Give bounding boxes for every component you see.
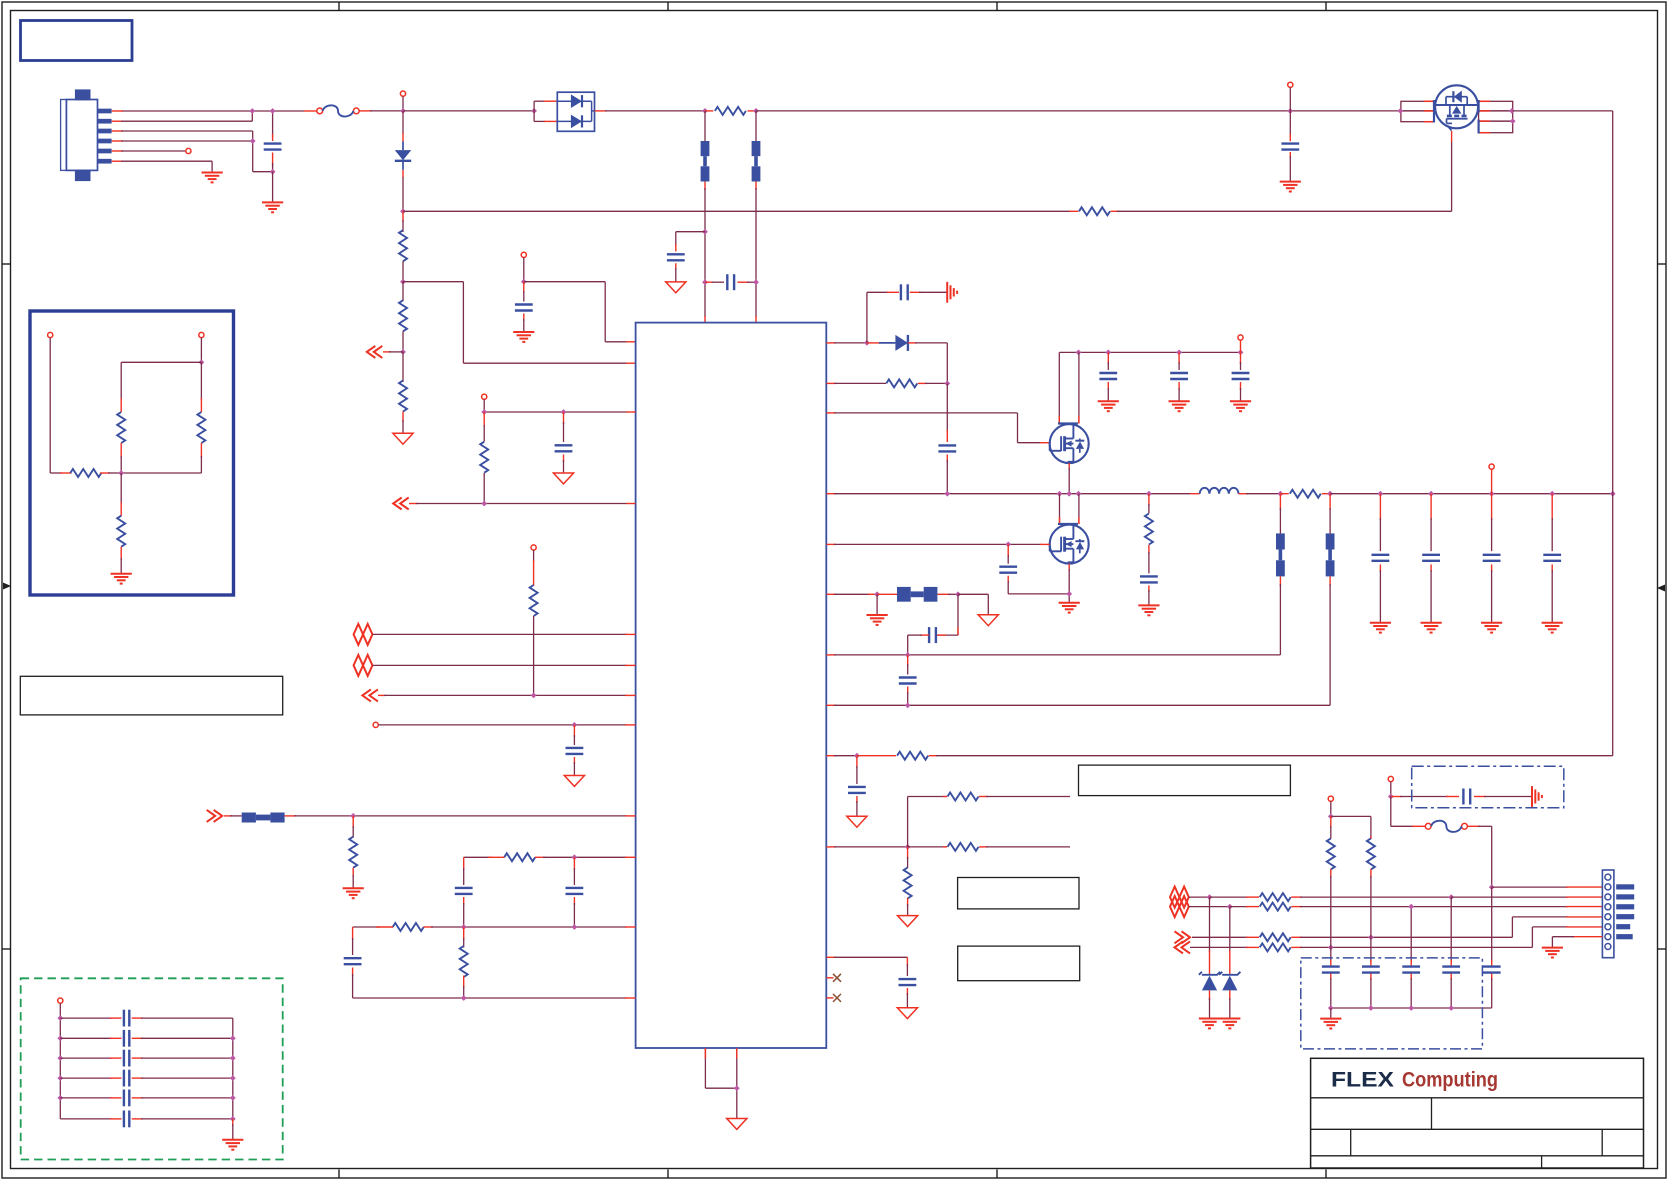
zener diode Z1 [1199,972,1220,991]
wire R11 to row [463,976,465,999]
note box 1 [1079,765,1291,796]
wire C8 leads [463,857,465,927]
wire R18 to C14 to ground [1148,545,1150,605]
capacitor C13 [999,567,1017,573]
pin P10 [48,332,53,337]
wire VIN stub [402,96,404,111]
connector J2 [1602,870,1634,958]
power ground [898,916,918,927]
ground [262,202,283,212]
wire bead B2 to IC top pin [755,182,757,323]
IC U1 [636,323,827,1048]
wire node down to fuse F2 [1391,797,1426,827]
cap bank group box [1301,958,1483,1049]
junction [230,1095,236,1101]
wire R6 to row FB [483,473,485,504]
power ground [666,282,686,293]
wire C5 leads [523,282,525,332]
Q1 right pad network [1479,101,1513,132]
wire L1 to R17 node [1239,493,1281,495]
junction [1328,945,1334,951]
capacitor C15 [929,627,936,643]
pin P9 test point [1388,776,1393,781]
wire R4 to node2 [402,331,404,352]
junction [531,693,537,699]
wire IC row to node [826,654,907,656]
pin VCC test point [1238,335,1243,340]
ferrite bead B6 [1326,533,1335,576]
svg-text:FLEX: FLEX [1331,1068,1395,1092]
junction [230,1055,236,1061]
junction [905,844,911,850]
resistor R2 [1079,207,1110,215]
junction [531,108,537,114]
wire vcc cap leads [1107,352,1109,401]
wire IC row to node3 [826,846,907,848]
wire R1 left stub [705,110,713,112]
wire row3 node to C25 [1370,937,1372,962]
ground [1199,1019,1220,1029]
capacitor C1 [264,144,282,150]
wire switch rail left [826,493,1190,495]
ground [202,173,223,183]
junction [1238,350,1244,356]
junction [734,1085,740,1091]
junction [1408,904,1414,910]
ground [1169,401,1190,411]
wire R12 to node [918,382,948,384]
junction [1448,1005,1454,1011]
wire R7 to row [533,616,535,695]
resistor R1 [715,107,746,115]
ground [1542,948,1563,958]
capacitor C11 [901,284,908,300]
wire pin stub [1289,87,1291,111]
wire pin2 node to C23 [1491,887,1493,962]
wire output cap leads [1491,494,1493,623]
junction [1428,491,1434,497]
junction [461,924,467,930]
wire C13 branch [1008,544,1069,594]
ferrite bead B2 [752,141,761,182]
wire R15 left stub [943,796,947,798]
capacitor C12 [938,445,956,451]
wire corner to R10 [353,926,380,928]
wire D2 cathode to node [908,343,947,384]
junction [270,169,276,175]
port arrow out [207,810,223,822]
wire R24 to row3 [1370,869,1372,937]
wire row INT to IC [378,694,636,696]
wire rail2 right to Q1 drain [1111,131,1452,211]
transistor Q2 [1050,424,1089,464]
wire P2 stub [523,258,525,282]
wire bridge input stubs [534,101,557,121]
wire IC to R12 [826,382,886,384]
junction [250,138,256,144]
wire bank cap leads [1330,960,1332,1008]
port diamond [354,624,373,645]
port arrow out [1175,931,1191,943]
port arrow in [1175,941,1191,953]
capacitor [1483,967,1501,973]
wire row VBUS to IC [294,815,636,817]
power ground [847,816,867,827]
resistor R4 [399,300,407,331]
wire cap row right [132,1077,233,1079]
junction [1327,491,1333,497]
wire cap row left [60,1077,121,1079]
wire output cap leads [1379,494,1381,623]
wire left bus [59,1003,61,1119]
snubber group box [1412,766,1564,808]
wire bead top stub [755,111,757,141]
junction [1489,884,1495,890]
capacitor [1483,555,1501,561]
wire VCC pin stub [1240,340,1242,352]
junction [57,1015,63,1021]
junction [572,854,578,860]
wire R17 right stub [1322,493,1330,495]
wire R13 to right bus [929,494,1613,756]
junction [1368,934,1374,940]
wire R21 to connector pin5 [1291,917,1602,937]
junction [944,491,950,497]
no-connect pin [826,974,841,982]
wire Q2 drain stub b [1078,352,1080,423]
resistor R17 [1290,490,1321,498]
note box 2 [958,878,1079,909]
junction [572,722,578,728]
capacitor C2 [1281,144,1299,150]
wire rail2 left of R2 [403,210,1079,212]
fuse F1 [317,105,359,116]
resistor R27 [70,469,101,477]
wire pin4 node to C21 [1410,907,1412,962]
wire output cap leads [1430,494,1432,623]
wire cap row right [132,1017,233,1019]
wire cap bank bus [1331,1007,1492,1009]
capacitor C16 [899,678,917,684]
wire B5 top lead [1279,494,1281,534]
capacitor C10 [344,958,362,964]
resistor R14 [948,843,979,851]
wire port row4 to R22 [1190,946,1259,948]
wire node to zener Z2 [1229,907,1231,974]
junction [1378,491,1384,497]
wire node4 to connector pin3 [1451,896,1602,898]
ground [513,332,534,342]
ferrite bead B5 [1276,533,1285,576]
resistor R21 [1260,933,1291,941]
resistor R28 [117,516,125,547]
wire C4 leads [705,281,756,283]
wire node to R4 [402,282,404,301]
wire R26 to node5 [121,443,201,473]
wire P9 stub [1390,782,1392,797]
capacitor [1543,555,1561,561]
wire C1 leads [272,111,274,172]
power ground [553,473,573,484]
wire bank cap leads [1410,960,1412,1008]
wire IC to node R13 [826,755,857,757]
capacitor [1170,373,1188,379]
svg-text:Computing: Computing [1402,1068,1498,1092]
port arrow in [393,498,409,510]
wire B6 top lead [1329,494,1331,534]
wire P11 down [200,338,202,363]
wire node to R24 [1331,816,1371,839]
wire L1 left stub [1190,493,1200,495]
wire node to zener Z1 [1209,897,1211,974]
junction [1398,108,1404,114]
power ground [564,776,584,787]
resistor R19 [1260,893,1291,901]
wire bead top stub [704,111,706,141]
wire cap row left [60,1118,121,1120]
junction [1448,894,1454,900]
wire J1 pin5 stub [112,150,186,152]
ground [1219,1019,1240,1029]
wire connector pin7 to ground [1552,937,1602,948]
wire R20 to connector pin4 [1291,906,1602,908]
wire C15 to row [908,635,929,655]
wire C16 leads [907,655,909,705]
wire bank cap leads [1370,960,1372,1008]
wire node3 up to R15 row [908,797,947,847]
capacitor C7 [566,748,584,754]
transistor Q3 [1050,524,1089,564]
wire node to R26 [200,362,202,412]
capacitor C6 [555,445,573,451]
junction [400,349,406,355]
resistor R25 [117,412,125,443]
wire J1 pin2 up to pin1 net [112,111,253,121]
wire cap row right [132,1057,233,1059]
wire row CTRL to IC [378,724,635,726]
wire pin3 node to C22 [1450,897,1452,962]
wire R9 to IC [488,856,636,858]
wire C1 to ground [272,172,274,202]
port diamond [1170,887,1189,908]
junction [57,1095,63,1101]
ground [1481,623,1502,633]
junction [1005,542,1011,548]
wire D1 anode lead [402,111,404,150]
wire node to R23 [1330,816,1332,838]
wire R8 to ground [352,868,354,888]
capacitor C5 [515,305,533,311]
resistor R26 [197,412,205,443]
wire J1 pin3 down to pin4 net [112,131,253,141]
wire bus to ground [1330,1008,1332,1018]
ground [1320,1019,1341,1029]
wire B4 node to ground [876,594,878,614]
wire R28 to ground [120,547,122,574]
wire C10 leads [352,927,354,998]
zener diode Z2 [1219,972,1240,991]
capacitor [1372,555,1390,561]
junction [854,753,860,759]
wire node to C19 [1391,796,1459,798]
power ground [978,615,998,626]
no-connect pin [826,994,841,1002]
ground [1542,623,1563,633]
wire P8 stub [1330,801,1332,816]
resistor R12 [886,379,917,387]
wire R16 to power ground [907,898,909,916]
border left arrow [3,583,11,590]
wire row COMP to IC [353,997,636,999]
wire right bus [232,1018,234,1119]
wire cap row left [60,1057,121,1059]
wire D1 cathode to rail2 [402,161,404,212]
diode D1 [395,150,411,161]
wire P3 node to R6 [483,412,485,442]
wire bank cap leads [1491,960,1493,1008]
wire node2 to R5 [402,352,404,382]
junction [57,1035,63,1041]
junction [702,229,708,235]
transistor Q1 [1434,85,1479,133]
wire port row3 to R21 [1192,936,1259,938]
wire cap row right [132,1037,233,1039]
vcc rail wire [1059,351,1240,353]
resistor R13 [897,752,928,760]
pin P12 [58,998,63,1003]
capacitor C14 [1140,576,1158,582]
wire C19 to chassis ground [1474,796,1532,798]
junction [230,1035,236,1041]
junction [118,470,124,476]
resistor R9 [504,853,535,861]
pin P8 test point [1328,796,1333,801]
chassis ground [947,282,957,303]
wire rail2 to R3 [402,211,404,232]
wire rail to R18 [1148,494,1150,514]
resistor R22 [1260,943,1291,951]
pin P4 test point [531,545,536,550]
wire B5 to IC row [908,576,1281,655]
junction [955,591,961,597]
EMI filter group box [21,978,283,1159]
wire divider node to IC pin [403,282,636,364]
chassis ground [1532,786,1542,807]
port arrow in [362,689,378,701]
junction [905,652,911,658]
wire cap row left [60,1097,121,1099]
wire port to bead B3 [224,815,242,817]
wire node to R13 [857,755,896,757]
junction [1057,491,1063,497]
wire zener Z1 to ground [1209,990,1211,1018]
capacitor [124,1111,129,1128]
wire corner to R9 [464,856,492,858]
junction [1388,794,1394,800]
junction [249,108,255,114]
wire R19 to node4 [1291,896,1451,898]
capacitor C9 [566,888,584,894]
junction [1509,108,1515,114]
pin test point [1288,82,1293,87]
wire node3 to R16 [907,847,909,868]
ferrite bead B4 [897,587,937,602]
junction [1066,491,1072,497]
port arrow in [367,346,383,358]
wire port to node2 [383,351,403,353]
capacitor C18 [899,979,917,985]
wire top rail to Q1 [756,110,1400,112]
wire fuse to node VIN [359,110,403,112]
wire D2 anode lead [867,342,896,344]
capacitor [124,1030,129,1047]
wire J1 pin4 to C1 low node [112,141,273,172]
wire R22 to connector pin6 [1291,927,1602,948]
wire vcc cap leads [1240,352,1242,401]
Q1 left pad network [1401,101,1434,121]
wire C7 leads [573,725,575,776]
wire row EN to IC [484,411,635,413]
wire J1 pin1 to fuse [112,110,317,112]
port diamond [1170,896,1189,917]
junction [1278,491,1284,497]
junction [230,1075,236,1081]
power ground [727,1119,747,1130]
wire VOUT stub [1491,469,1493,494]
wire node3 to R14 [908,846,947,848]
junction [1105,350,1111,356]
ground [1059,603,1080,613]
junction [1549,491,1555,497]
junction [481,501,487,507]
capacitor [124,1070,129,1087]
wire IC row to node2 [826,704,907,706]
wire row SDA to IC [373,633,636,635]
junction [1610,491,1616,497]
wire R15 right [979,796,1070,798]
wire J1 pin6 to ground [112,161,213,172]
wire Q3 drain stub a [1059,494,1061,524]
wire bead B4 right stub [937,593,958,595]
wire port row1 to node [1189,896,1210,898]
wire C3 branch [676,232,705,282]
wire node to R20 [1230,906,1259,908]
pin VOUT test point [1489,464,1494,469]
capacitor [1322,967,1340,973]
junction [400,208,406,214]
wire R3 to node [402,261,404,282]
wire zener Z2 to ground [1229,990,1231,1018]
wire C6 leads [563,412,565,473]
capacitor [1099,373,1117,379]
junction [864,340,870,346]
wire R10 row to IC [376,926,636,928]
resistor R11 [460,946,468,977]
junction [199,359,205,365]
wire node to connector pin2 [1492,886,1603,888]
junction [944,381,950,387]
wire R5 to power ground [402,412,404,434]
capacitor [1362,967,1380,973]
resistor R10 [393,923,424,931]
ground [867,615,888,625]
junction [1176,350,1182,356]
junction [905,702,911,708]
junction [461,995,467,1001]
wire node to R11 [463,927,465,948]
junction [1489,491,1495,497]
wire bridge output to bead node [595,110,706,112]
